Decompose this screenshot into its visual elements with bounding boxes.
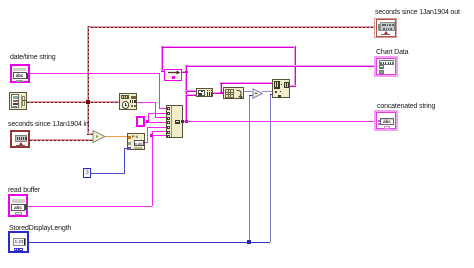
- wire: vertical up from format output: [147, 127, 148, 144]
- junction: blue: [247, 240, 251, 244]
- control: seconds since 1Jan1904 in: [10, 130, 30, 148]
- wire: into concat in1: [159, 108, 167, 109]
- node: concatenate strings: [166, 105, 183, 138]
- wire: into concat in3: [155, 117, 167, 118]
- wire: into concat in6: [152, 131, 167, 132]
- node: number to string (format): [127, 133, 145, 150]
- control: StoredDisplayLength: [8, 231, 29, 253]
- wire: into concat in5: [147, 127, 166, 128]
- wire: blue vertical to format node: [124, 148, 125, 173]
- node: spreadsheet string to array: [196, 88, 213, 97]
- wire: timestamp from seconds in control to subtract triangle: [30, 139, 93, 141]
- label: seconds since 1Jan1904 in: [8, 121, 89, 128]
- wire: into concat in7: [152, 135, 167, 136]
- label: seconds since 1Jan1904 out: [375, 9, 460, 16]
- label: StoredDisplayLength: [9, 225, 71, 232]
- label: read buffer: [8, 187, 40, 194]
- junction: node2 out: [185, 71, 188, 74]
- wire: vertical branch up from node3 out: [220, 82, 222, 93]
- control: read buffer: [8, 194, 28, 217]
- wire: format node output stub: [145, 142, 148, 143]
- control: date/time string: [10, 64, 30, 83]
- wire: timestamp vertical x87: [87, 26, 89, 135]
- node: Get Date/Time String: [119, 93, 137, 110]
- junction: node3 out: [220, 92, 223, 95]
- junction: timestamp: [86, 100, 91, 105]
- wire: read buffer output: [28, 206, 152, 207]
- indicator: concatenated string: [374, 110, 398, 131]
- wire: branch up from constant: [148, 113, 149, 123]
- wire: cluster stub into node2: [161, 70, 165, 72]
- label: concatenated string: [377, 103, 435, 110]
- wire: blue vertical to node5: [270, 94, 271, 242]
- wire: orange triangle output to format node: [104, 136, 128, 138]
- wire: timestamp top horizontal to seconds out: [87, 26, 374, 28]
- constant: 3: [83, 168, 91, 178]
- wire: vertical down to concat in3: [155, 102, 156, 118]
- wire: array out of node4 to triangle2: [244, 91, 252, 92]
- wire: concat output to concatenated string indicator: [183, 121, 375, 122]
- node: arrow node (to cluster): [164, 69, 182, 81]
- wire: stub into node3 lower: [186, 94, 196, 96]
- junction: concat out: [185, 120, 188, 123]
- wire: node2 output stub: [182, 71, 187, 73]
- wire: blue stub node5 input: [270, 94, 273, 95]
- node: bundle node5: [272, 79, 290, 98]
- wire: stub into node3 upper: [186, 90, 196, 92]
- wire: node3 output: [213, 92, 223, 94]
- wire: triangle2 output to node5: [262, 91, 272, 92]
- wire: cluster horizontal to Chart Data: [185, 65, 374, 67]
- node: subtract triangle T2: [252, 88, 263, 99]
- wire: timestamp from Get Date/Time In Seconds to Get Date/Time String: [27, 101, 119, 103]
- wire: blue from constant 3: [90, 173, 125, 174]
- junction: read buffer branch: [150, 134, 153, 137]
- wire: blue stub triangle2 lower input: [249, 95, 253, 96]
- junction: string constant: [146, 120, 149, 123]
- wire: blue vertical to triangle2: [249, 95, 250, 242]
- wire: blue StoredDisplayLength horizontal: [29, 242, 270, 243]
- wire: string constant to concat in4: [145, 122, 166, 123]
- wire: vertical up from read buffer: [152, 131, 153, 206]
- wire: cluster top loop horizontal: [161, 46, 296, 48]
- wire: node5 output stub: [290, 85, 296, 87]
- label: date/time string: [10, 54, 55, 61]
- label: Chart Data: [376, 49, 408, 56]
- wire: cluster vertical left: [161, 46, 163, 71]
- wire: date/time string control output: [30, 73, 159, 74]
- wire: horizontal into node5 input1: [220, 82, 272, 84]
- wire: blue stub into format node: [124, 148, 128, 149]
- indicator: Chart Data: [374, 56, 398, 77]
- node: Get Date/Time In Seconds: [9, 92, 27, 110]
- wire: cluster vertical right x294.5: [294, 46, 296, 86]
- indicator: seconds since 1Jan1904 out: [374, 18, 397, 39]
- node: subtract triangle T1: [92, 130, 106, 143]
- wire: vertical down to concat in1: [159, 73, 160, 109]
- constant: empty string: [136, 116, 145, 127]
- wire: cluster vertical x186: [185, 65, 187, 122]
- wire: Get Date/Time String output: [137, 102, 155, 103]
- wire: timestamp stub into subtract triangle top: [87, 133, 94, 135]
- node: array reshape: [223, 87, 244, 99]
- wire: into concat in2: [148, 113, 166, 114]
